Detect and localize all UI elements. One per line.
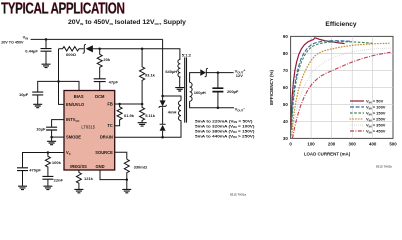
svg-text:10µF: 10µF: [36, 126, 46, 131]
node clamp/drain junction: [161, 136, 164, 139]
svg-text:160µH: 160µH: [194, 90, 206, 95]
svg-text:60: 60: [283, 85, 288, 90]
node 20k tap: [98, 48, 101, 51]
svg-text:5mA to 440mA (VIN > 250V): 5mA to 440mA (VIN > 250V): [195, 133, 255, 139]
resistor 100k: [45, 153, 50, 177]
node VOUT-/200uF junction: [217, 106, 220, 109]
ground for 0.44uF: [42, 64, 51, 67]
svg-text:93.1k: 93.1k: [145, 72, 156, 77]
svg-text:61.9k: 61.9k: [124, 113, 135, 118]
wire SOURCE: [114, 152, 126, 159]
svg-text:40: 40: [283, 119, 288, 124]
node SMODE/10uF junction: [50, 136, 53, 139]
wire bias winding to ground: [179, 77, 182, 88]
svg-text:121k: 121k: [84, 176, 94, 181]
ground for bias winding: [175, 88, 184, 91]
capacitor C 10uF no.2: [46, 127, 57, 130]
wire GND to ground: [126, 180, 128, 190]
wire 10uF no.1 branch: [38, 81, 59, 104]
ground for 10uF no.2: [47, 141, 56, 144]
zener D1 (series with 600 ohm): [83, 44, 86, 53]
ground for 5.11k: [138, 123, 147, 126]
curve VIN=100V blue dashed: [291, 41, 352, 128]
transformer T1 primary winding 4mH: [179, 101, 182, 121]
svg-text:VIN = 450V: VIN = 450V: [366, 129, 386, 135]
wire primary top from clamp node: [163, 96, 181, 101]
wire SMODE stub: [52, 136, 64, 138]
transformer T1 secondary winding 160uH: [190, 82, 193, 101]
svg-text:TYPICAL APPLICATION: TYPICAL APPLICATION: [1, 1, 125, 18]
node VIN/0.44uF junction: [45, 38, 48, 41]
svg-text:Efficiency: Efficiency: [325, 21, 356, 28]
legend entry VIN=450V: [350, 130, 364, 132]
wire 22nF to ground: [47, 179, 49, 186]
svg-text:640µH: 640µH: [165, 69, 177, 74]
svg-text:8315 TA01b: 8315 TA01b: [376, 165, 392, 169]
svg-text:LOAD CURRENT (mA): LOAD CURRENT (mA): [304, 151, 351, 156]
svg-text:5:1:2: 5:1:2: [182, 52, 192, 57]
curve VIN=50V solid maroon: [291, 38, 345, 125]
svg-text:330mΩ: 330mΩ: [134, 164, 148, 169]
svg-text:200µF: 200µF: [227, 89, 239, 94]
svg-text:80: 80: [283, 51, 288, 56]
wire DRAIN line: [114, 121, 181, 137]
ground for 22nF: [43, 186, 52, 189]
wire VOUT+: [206, 72, 233, 74]
legend entry VIN=50V: [350, 100, 364, 102]
resistor 330mohm: [124, 159, 129, 179]
wire DCM stub: [99, 82, 101, 91]
wire VIN rail: [31, 38, 163, 40]
svg-text:0.44µF: 0.44µF: [25, 48, 38, 53]
svg-text:4mH: 4mH: [168, 109, 177, 114]
svg-text:VIN = 150V: VIN = 150V: [366, 111, 386, 117]
svg-text:VIN = 100V: VIN = 100V: [366, 105, 386, 111]
svg-text:5.11k: 5.11k: [145, 113, 156, 118]
svg-text:DRAIN: DRAIN: [100, 135, 113, 140]
capacitor C 200uF: [217, 73, 219, 108]
svg-text:22nF: 22nF: [54, 177, 64, 182]
svg-text:20V TO 450V: 20V TO 450V: [1, 41, 24, 45]
svg-text:20VIN to 450VIN Isolated 12VOU: 20VIN to 450VIN Isolated 12VOUT Supply: [68, 19, 187, 26]
ground for GND pin: [122, 189, 131, 192]
legend entry VIN=250V: [350, 118, 364, 120]
node FB/5.11k junction: [141, 103, 144, 106]
svg-text:30: 30: [283, 136, 288, 141]
node VC/100k junction: [47, 151, 50, 154]
ground for 470pF: [18, 186, 27, 189]
svg-text:SMODE: SMODE: [66, 135, 81, 140]
svg-text:BIAS: BIAS: [74, 94, 84, 99]
svg-text:DCM: DCM: [95, 94, 105, 99]
svg-text:470pF: 470pF: [29, 167, 41, 172]
wire GND pin: [100, 170, 127, 179]
op-amp/IC U1 LT8315 block: [64, 91, 115, 171]
curve VIN=150V green dashed: [292, 42, 374, 130]
legend entry VIN=350V: [350, 124, 364, 126]
zener D2 clamp: [160, 100, 166, 106]
svg-text:GND: GND: [95, 164, 104, 169]
wire INTVCC branch: [52, 120, 64, 142]
svg-text:600Ω: 600Ω: [66, 52, 77, 57]
svg-text:VIN = 250V: VIN = 250V: [366, 117, 386, 123]
node VOUT+/200uF junction: [217, 71, 220, 74]
graph plot frame: [291, 36, 393, 138]
svg-text:8315 TA01a: 8315 TA01a: [230, 193, 246, 197]
resistor 61.9k: [114, 104, 122, 126]
svg-text:SOURCE: SOURCE: [95, 150, 113, 155]
svg-text:VIN = 350V: VIN = 350V: [366, 123, 386, 129]
node EN/UVLO-BIAS junction: [57, 80, 60, 83]
svg-text:TC: TC: [107, 123, 113, 128]
wire clamp vertical from VIN: [162, 39, 164, 100]
svg-text:400: 400: [369, 141, 377, 146]
node clamp/primary-top junction: [161, 95, 164, 98]
capacitor C 47pF: [94, 79, 106, 82]
svg-text:LT8315: LT8315: [81, 125, 95, 130]
node GND/330mohm junction: [126, 178, 129, 181]
resistor 93.1k: [140, 49, 145, 104]
ground for 121k: [74, 189, 83, 192]
ground for 10uF no.1: [33, 104, 42, 107]
graph horizontal gridlines: [291, 53, 393, 121]
svg-text:EFFICIENCY (%): EFFICIENCY (%): [269, 69, 274, 104]
svg-text:500: 500: [389, 141, 397, 146]
svg-text:50: 50: [283, 102, 288, 107]
wire bias line: [93, 49, 180, 60]
curve VIN=250V tan dotted: [292, 43, 389, 135]
svg-text:100: 100: [307, 141, 315, 146]
svg-text:IREG/SS: IREG/SS: [70, 164, 87, 169]
svg-text:20k: 20k: [103, 57, 110, 62]
resistor 121k: [76, 170, 81, 189]
node FB/61.9k junction: [118, 103, 121, 106]
capacitor C 470pF: [17, 168, 28, 171]
graph vertical gridlines: [311, 36, 373, 138]
wire secondary top: [190, 73, 201, 83]
resistor 5.11k: [140, 104, 145, 123]
svg-text:EN/UVLO: EN/UVLO: [66, 102, 85, 107]
svg-text:FB: FB: [107, 102, 113, 107]
wire FB line: [114, 103, 142, 105]
svg-text:100k: 100k: [52, 160, 62, 165]
transformer T1 bias winding 640uH: [178, 59, 181, 77]
wire 0.44uF stub: [45, 39, 47, 64]
wire EN/UVLO vertical: [59, 49, 65, 105]
legend entry VIN=150V: [350, 112, 364, 114]
wire BIAS branch: [59, 81, 80, 90]
svg-text:47pF: 47pF: [109, 80, 119, 85]
svg-text:10µF: 10µF: [19, 92, 29, 97]
svg-text:VIN = 50V: VIN = 50V: [366, 99, 384, 105]
svg-text:300: 300: [349, 141, 357, 146]
svg-text:70: 70: [283, 68, 288, 73]
resistor 600 ohm: [59, 47, 84, 51]
diode D3 clamp: [160, 107, 166, 124]
legend entry VIN=100V: [350, 106, 364, 108]
capacitor C 0.44uF: [41, 49, 52, 52]
svg-text:200: 200: [328, 141, 336, 146]
capacitor C 22nF: [42, 176, 53, 179]
wire secondary bottom VOUT-: [190, 101, 234, 108]
curve VIN=350V gray fine dotted: [292, 48, 391, 138]
resistor 20k: [97, 49, 102, 79]
svg-text:90: 90: [283, 34, 288, 39]
svg-text:12V: 12V: [236, 73, 243, 78]
curve VIN=450V red dash-dot: [293, 52, 392, 138]
wire VC line: [23, 153, 65, 187]
capacitor C 10uF no.1: [32, 92, 43, 95]
node 93.1k tap: [141, 48, 144, 51]
transformer T1 core: [185, 57, 187, 122]
diode D4 output rectifier: [200, 69, 206, 76]
